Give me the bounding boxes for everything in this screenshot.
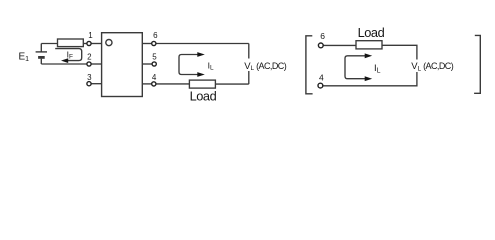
load resistor (right circuit) [356,41,382,49]
svg-text:5: 5 [152,52,157,61]
svg-text:1: 1 [88,31,93,40]
wire pin2 stub [91,63,102,65]
pin-1 indicator dot [106,40,112,46]
bracket left [306,36,313,94]
terminal 2 [87,62,91,66]
wire pin3 stub [91,83,102,85]
label VL (AC,DC) (left circuit) [243,59,287,73]
wire battery top to resistor [41,43,57,45]
terminal 5 [152,62,156,66]
wire battery bottom to terminal 2 [41,63,87,65]
wire pin6 to load (right circuit) [321,44,356,46]
IC body U1 [102,33,143,97]
current arrow IF [55,49,81,63]
svg-text:6: 6 [153,31,158,40]
terminal 4 [152,82,156,86]
svg-text:IL: IL [208,61,214,72]
wire right rail down [248,44,250,85]
terminal 4 (right circuit) [318,83,323,88]
svg-text:Load: Load [190,89,217,104]
svg-text:6: 6 [320,31,325,41]
svg-text:4: 4 [319,72,324,82]
current arrow IL (left circuit) [179,52,205,77]
terminal 6 (right circuit) [318,43,323,48]
svg-text:Load: Load [358,25,385,40]
wire pin6 stub and to right rail [142,43,156,45]
label VL (AC,DC) (right circuit) [409,60,454,73]
wire pin5 stub [142,63,154,65]
wire resistor to terminal 1 [83,43,87,45]
resistor (series) [58,39,84,47]
svg-text:3: 3 [87,73,92,82]
current arrow IL (right circuit) [345,53,372,81]
wire rail to load [215,83,248,85]
terminal 3 [87,82,91,86]
load resistor (left circuit) [189,80,215,88]
bracket right [474,35,480,93]
battery E1 [36,44,47,65]
wire pin4 stub and to load [142,83,156,85]
svg-text:IL: IL [374,63,381,74]
svg-text:IF: IF [67,49,73,60]
svg-text:4: 4 [152,73,157,82]
terminal 1 [87,41,91,45]
wire load to right rail and down to pin4 (right circuit) [321,45,417,86]
svg-text:E1: E1 [19,52,30,64]
wire pin1 stub [91,43,102,45]
terminal 6 [152,41,156,45]
svg-text:2: 2 [87,52,92,61]
